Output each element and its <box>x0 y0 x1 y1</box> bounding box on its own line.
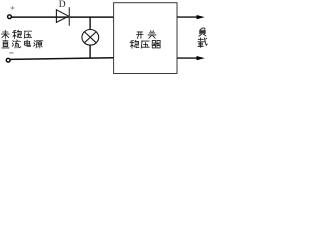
svg-text:D: D <box>59 0 66 10</box>
diode D (triangle + cathode bar) <box>56 10 68 23</box>
wire: bottom output with arrowhead <box>177 56 205 60</box>
wire: lamp bottom lead <box>89 45 91 58</box>
terminal: negative input <box>6 58 10 62</box>
label: 稳压器 (regulator) <box>130 40 161 48</box>
wire: bottom input from - terminal to regulator box <box>11 58 114 60</box>
diode D cathode bar <box>68 7 70 26</box>
block U1: switching regulator box <box>114 3 177 74</box>
terminal: positive input <box>8 15 12 19</box>
label: 负载 (load) <box>198 28 207 47</box>
wire: top input from + terminal to regulator box <box>12 16 114 18</box>
wire: lamp top lead <box>89 17 91 30</box>
label: + polarity mark <box>11 6 15 9</box>
wire: top output with arrowhead <box>177 15 205 19</box>
label: 未稳压 (unregulated) <box>1 30 31 38</box>
lamp / indicator (circle with X) <box>82 30 99 46</box>
label: 开关 (switching) <box>136 31 156 39</box>
label: 直流电源 (DC power source) <box>2 40 43 48</box>
label: - polarity mark <box>9 52 13 54</box>
